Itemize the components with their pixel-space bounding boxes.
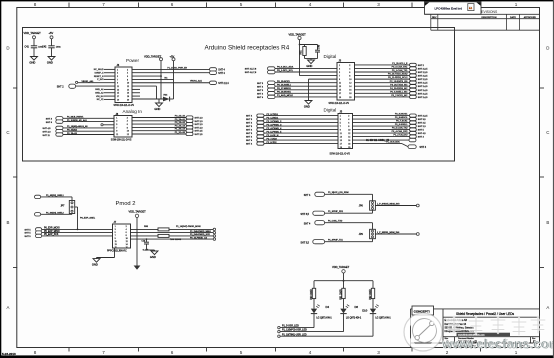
svg-text:D6: D6 (355, 305, 359, 309)
svg-text:13: 13 (115, 244, 117, 246)
off-page connector SHT 2,3,5 (J5 right row1) (410, 114, 417, 117)
svg-text:P1_12(MPO)-USR_LED: P1_12(MPO)-USR_LED (282, 330, 307, 332)
svg-text:VDD_TARGET: VDD_TARGET (289, 32, 307, 36)
wire I2C1_SCL (275, 67, 337, 69)
svg-text:P4_28-TXD3_MC: P4_28-TXD3_MC (390, 84, 408, 86)
wire P4_29-RXD3_MC (355, 89, 410, 91)
svg-text:7: 7 (340, 126, 341, 128)
svg-text:SHT 4: SHT 4 (257, 86, 264, 88)
svg-text:J_P_SHD45_MDM_3V3: J_P_SHD45_MDM_3V3 (377, 203, 400, 205)
svg-text:17: 17 (117, 96, 119, 98)
svg-text:P1_31+A5: P1_31+A5 (175, 131, 186, 134)
svg-text:P1_SUBD5_AR_AA1: P1_SUBD5_AR_AA1 (67, 119, 88, 122)
svg-text:P0_7-SCK1: P0_7-SCK1 (396, 121, 408, 123)
svg-text:8: 8 (348, 126, 349, 128)
svg-text:R81: R81 (300, 50, 302, 55)
svg-text:VIN_SH: VIN_SH (96, 96, 104, 98)
off-page connector SHT 3,5 (J5 right row2) (410, 118, 417, 121)
svg-text:P0_17-MISO1: P0_17-MISO1 (277, 88, 292, 90)
wire P0_16-SSEL1 (275, 85, 337, 87)
scan edge top (0, 0, 554, 1)
wire P0_4-CAN_RX2 (353, 132, 410, 134)
off-page connector SHT 4 (J5 right row9) (408, 145, 416, 149)
off-page connector SHT 2,5 (analog right 6) (186, 132, 193, 135)
svg-text:16: 16 (127, 93, 129, 95)
svg-text:P2_7-RD2: P2_7-RD2 (267, 138, 278, 140)
svg-text:D4: D4 (326, 305, 330, 309)
svg-text:9: 9 (115, 238, 116, 240)
wire P0_7-SCK1 (353, 122, 410, 124)
off-page connector SHT 2,3 (J5 right row4) (410, 125, 417, 128)
wire P0_6-SSEL1_MC (355, 92, 410, 94)
svg-text:SHT 4: SHT 4 (46, 122, 53, 124)
svg-text:SHT 4: SHT 4 (218, 70, 225, 72)
wire pmod row2 (131, 232, 214, 234)
wire from SHT 3,5 (325, 212, 373, 214)
svg-text:5: 5 (116, 124, 117, 126)
svg-text:P2_5-PWM1_5: P2_5-PWM1_5 (267, 131, 283, 133)
svg-text:4: 4 (126, 229, 127, 231)
wire P1_31+A5 (132, 133, 186, 135)
svg-text:4: 4 (348, 119, 349, 121)
svg-text:11: 11 (339, 83, 341, 85)
svg-text:P1_16-M_MDC: P1_16-M_MDC (386, 142, 400, 144)
svg-text:SHT 3,5: SHT 3,5 (301, 214, 310, 216)
capacitor C10 (146, 239, 148, 242)
ground RC filter (305, 58, 318, 60)
wire P0_25(A2) (63, 130, 114, 132)
open terminal pmod row2 (213, 231, 215, 233)
svg-text:9: 9 (340, 130, 341, 132)
wire P1_18(TIN1)-USR_LED (372, 314, 374, 337)
connector J3 (337, 63, 355, 101)
wire J6 left pin 3 (104, 72, 115, 74)
wire P0_26+A3 (132, 126, 186, 128)
svg-text:SHT 2,3,5: SHT 2,3,5 (418, 72, 428, 74)
svg-text:SHT 2,3,5: SHT 2,3,5 (418, 116, 428, 118)
wire P0_6-SSEL1 (353, 125, 410, 127)
svg-text:R91 330R: R91 330R (340, 289, 342, 300)
wire row3 to VDD_TARGET (132, 75, 161, 77)
wire P1_30(D4)_SSEL2 (41, 213, 72, 215)
svg-text:C: C (6, 130, 9, 135)
wire P0_EXP_MISO (42, 232, 113, 234)
svg-text:D: D (6, 46, 9, 51)
svg-text:Digital: Digital (324, 54, 337, 59)
svg-text:P0_18-MOSI1: P0_18-MOSI1 (277, 91, 292, 93)
svg-text:SHT 2,3,4: SHT 2,3,4 (218, 83, 229, 85)
open terminal pmod row3 (213, 235, 215, 237)
revision history table (425, 14, 540, 30)
svg-text:SHT 5: SHT 5 (257, 90, 264, 92)
wire row2 (132, 72, 210, 74)
svg-text:SSW-110-22L-D-VS: SSW-110-22L-D-VS (329, 103, 350, 105)
wire P2_2-PWM1_2 (264, 122, 338, 124)
jumper JP7 (71, 197, 73, 201)
svg-text:2: 2 (349, 65, 350, 67)
svg-text:P0_EXP_SCK: P0_EXP_SCK (44, 234, 59, 236)
svg-text:SHT 4: SHT 4 (46, 119, 53, 121)
svg-text:P1_D48-PMOD_MISO: P1_D48-PMOD_MISO (190, 231, 211, 233)
svg-text:P0_24+A1: P0_24+A1 (175, 118, 186, 121)
svg-text:P1_3(HCL)_I2S_RXM: P1_3(HCL)_I2S_RXM (328, 192, 349, 194)
svg-text:1: 1 (116, 117, 117, 119)
svg-text:VDD_TARGET: VDD_TARGET (332, 265, 350, 269)
svg-text:5: 5 (339, 72, 340, 74)
svg-text:7: 7 (116, 127, 117, 129)
svg-text:P0_EXP_MOSI: P0_EXP_MOSI (44, 228, 60, 230)
wire P0_26+A3 (63, 134, 114, 136)
wire J6 left pin 5 (104, 75, 115, 77)
wire P1_3(HCL)_I2S_RXM (325, 193, 373, 195)
off-page connector SHT 2,4,5 (J3 right row9) (410, 92, 417, 95)
svg-text:APPROVED: APPROVED (524, 16, 537, 19)
wire P1_16-M_MDC (353, 143, 403, 145)
svg-text:6: 6 (127, 124, 128, 126)
off-page connector SHT 2,3 (analog right 3) (186, 123, 193, 126)
wire P1_C4SL_TXD (325, 222, 373, 224)
wire P2_8-TD2 (264, 143, 338, 145)
svg-text:P1_18(TIN1)-USR_LED: P1_18(TIN1)-USR_LED (282, 334, 307, 336)
ground J7 (114, 248, 116, 258)
svg-text:REV: REV (432, 17, 437, 19)
svg-text:4: 4 (127, 73, 128, 75)
off-page connector SHT 2,3,5 (J3 right row5) (410, 78, 417, 81)
open terminal pmod row4 (213, 238, 215, 240)
off-page connector SHT 2,4,5 (J3 right row7) (410, 85, 417, 88)
svg-text:10: 10 (349, 79, 351, 81)
svg-text:P0_15-SCK1: P0_15-SCK1 (277, 81, 291, 83)
ground below C42 (48, 57, 55, 61)
open terminal LED net 1 (278, 326, 280, 328)
sheet title tab (425, 2, 482, 14)
svg-text:GND: GND (304, 105, 310, 109)
wire P0_11-RXD2_SCL2 (355, 78, 410, 80)
svg-text:D: D (546, 46, 549, 51)
open terminal LED net 3 (278, 335, 280, 337)
connector J8 (114, 116, 132, 138)
off-page connector SHT 4 (row2) (210, 71, 217, 74)
wire pmod row4 (131, 238, 214, 240)
svg-text:P2_4-PWM1_4: P2_4-PWM1_4 (267, 128, 283, 130)
svg-text:3: 3 (340, 119, 341, 121)
svg-text:Analog In: Analog In (123, 109, 143, 114)
svg-text:7: 7 (115, 235, 116, 237)
wire J6 left pin 15 (104, 92, 115, 94)
svg-text:SHT 2,5: SHT 2,5 (418, 123, 427, 125)
wire P4_28-TXD3_MC (355, 85, 410, 87)
svg-text:18: 18 (348, 144, 350, 146)
svg-text:7: 7 (102, 2, 105, 7)
svg-text:8: 8 (127, 79, 128, 81)
svg-text:SHT 2,4,5: SHT 2,4,5 (418, 90, 428, 92)
LED D6 (340, 309, 346, 314)
svg-text:VDD_TARGET: VDD_TARGET (129, 209, 147, 213)
svg-text:SHT 4,5,7,8: SHT 4,5,7,8 (245, 69, 257, 71)
svg-text:1: 1 (340, 116, 341, 118)
svg-text:A: A (7, 305, 10, 310)
svg-text:15: 15 (339, 90, 341, 92)
svg-text:NC_SHLD: NC_SHLD (94, 69, 104, 71)
wire P0_8-MISO1 (353, 118, 410, 120)
svg-text:17: 17 (340, 144, 342, 146)
svg-text:Power: Power (126, 58, 139, 63)
svg-text:2: 2 (127, 117, 128, 119)
wire stubs rows7-9 (132, 88, 140, 90)
svg-text:REVISIONS: REVISIONS (479, 10, 498, 14)
svg-text:LG Q971-KN-1: LG Q971-KN-1 (375, 317, 391, 319)
wire P1_31-SCL1_E (355, 64, 410, 66)
svg-text:11: 11 (116, 134, 118, 136)
svg-text:3: 3 (339, 68, 340, 70)
svg-text:12: 12 (348, 133, 350, 135)
svg-text:SHT 5: SHT 5 (246, 119, 253, 121)
off-page connector (J5 right row8) (409, 138, 416, 141)
svg-text:C42: C42 (42, 46, 47, 49)
svg-text:GND: GND (154, 107, 160, 111)
svg-text:P1_SPDIF_TX1: P1_SPDIF_TX1 (328, 240, 344, 242)
svg-text:P2_3-PWM1_3: P2_3-PWM1_3 (267, 124, 283, 126)
svg-text:GND_A2: GND_A2 (95, 92, 104, 95)
svg-text:P0_EXP_SSEL: P0_EXP_SSEL (80, 218, 96, 220)
wire LED power bus (314, 280, 373, 282)
wire SHT2 to J6 pin 11 (76, 85, 115, 87)
svg-text:SHT 4: SHT 4 (246, 140, 253, 142)
svg-text:7: 7 (102, 350, 105, 355)
off-page connector SHT 4,5 (J5 right row6) (410, 132, 417, 135)
svg-text:8: 8 (127, 127, 128, 129)
svg-text:SHT 4: SHT 4 (418, 137, 425, 139)
wire P0_7-SCK1_MC (355, 96, 410, 98)
wire P2_13-EINT3_I2S (355, 82, 410, 84)
svg-text:6: 6 (127, 76, 128, 78)
svg-text:15: 15 (340, 140, 342, 142)
svg-text:R90 330R: R90 330R (311, 289, 313, 300)
svg-text:19: 19 (340, 147, 342, 149)
off-page connector SHT 2,5 (analog right 5) (186, 129, 193, 132)
CONCEPT stamp (412, 306, 434, 315)
wire row6 (132, 85, 157, 87)
svg-text:P0_6-SSEL1: P0_6-SSEL1 (395, 124, 408, 126)
svg-text:NC_X1: NC_X1 (97, 99, 105, 101)
power arrow down (pmod) (134, 266, 141, 270)
svg-text:SHT 5: SHT 5 (246, 133, 253, 135)
svg-text:6: 6 (348, 123, 349, 125)
svg-text:7: 7 (117, 79, 118, 81)
svg-text:SHT 5: SHT 5 (418, 130, 425, 132)
svg-text:P0_1-CAN_TX1: P0_1-CAN_TX1 (392, 69, 408, 72)
watermark glyphs (447, 316, 545, 335)
svg-text:R92 330R: R92 330R (370, 289, 372, 300)
svg-text:SHT 4: SHT 4 (246, 116, 253, 118)
off-page connector SHT 5 (J5 right row5) (410, 128, 417, 131)
wire P2_5-PWM1_5 (264, 132, 338, 134)
wire P0_18-MOSI1 (275, 92, 337, 94)
connector J7 (113, 224, 131, 248)
svg-text:P1_C4SL_TXD: P1_C4SL_TXD (328, 221, 343, 223)
off-page connector SHT 2,4,5 (J3 right row10) (410, 95, 417, 98)
svg-text:5: 5 (117, 76, 118, 78)
svg-text:Pmod 2: Pmod 2 (116, 201, 136, 207)
svg-text:SHT 4: SHT 4 (257, 93, 264, 95)
off-page connector SHT 4 (row1) (210, 68, 217, 71)
svg-text:IOREF_X: IOREF_X (95, 73, 105, 75)
wire VBUS1_AA1 row5 (132, 82, 210, 84)
svg-text:16: 16 (349, 90, 351, 92)
resistor R81 (304, 45, 306, 47)
svg-text:4: 4 (127, 121, 128, 123)
Embedded Artists logo (413, 319, 437, 343)
svg-text:3: 3 (377, 350, 380, 355)
svg-text:P0_22-PMOD_CS: P0_22-PMOD_CS (190, 237, 208, 239)
svg-text:SSW-110-22L-D-VS: SSW-110-22L-D-VS (330, 153, 351, 155)
svg-text:12: 12 (349, 83, 351, 85)
wire VDD row4 (300, 75, 338, 77)
svg-text:SHT 4: SHT 4 (218, 73, 225, 75)
LED D10 (370, 309, 376, 314)
svg-text:17: 17 (339, 93, 341, 95)
svg-text:J_P_SER01_MDM_3V4: J_P_SER01_MDM_3V4 (377, 232, 400, 234)
svg-text:14: 14 (127, 89, 129, 91)
svg-text:SHT 2,3,5: SHT 2,3,5 (418, 68, 428, 70)
svg-text:RESET_N: RESET_N (94, 76, 104, 78)
wire J6 left pin 19 (104, 98, 115, 100)
svg-text:5: 5 (240, 350, 243, 355)
svg-text:P0_1-I2C1_SCL: P0_1-I2C1_SCL (277, 70, 294, 72)
svg-text:SSW-108-22L-D-VS: SSW-108-22L-D-VS (111, 140, 132, 142)
svg-text:SHT 2,3: SHT 2,3 (195, 124, 204, 126)
svg-text:www.elecfans.com: www.elecfans.com (441, 336, 554, 351)
svg-text:7: 7 (339, 75, 340, 77)
svg-text:1: 1 (515, 2, 518, 7)
svg-text:10: 10 (127, 83, 129, 85)
wire JP7 common to J7 (75, 206, 78, 208)
svg-text:10: 10 (348, 130, 350, 132)
svg-text:P2_2-PWM1_2: P2_2-PWM1_2 (267, 121, 283, 123)
off-page connector P1_30 (pmod mid) (35, 213, 41, 216)
svg-text:SHT 4: SHT 4 (304, 195, 311, 197)
ground drop at power rail (158, 99, 160, 103)
svg-text:3: 3 (377, 2, 380, 7)
svg-text:6: 6 (171, 2, 174, 7)
wire J_P_SER01_MDM_3V4 (375, 233, 416, 235)
svg-text:C41: C41 (25, 46, 30, 49)
svg-text:SHT 2: SHT 2 (57, 85, 64, 88)
wire pmod row3 + resistor R96 (131, 235, 159, 237)
svg-text:9: 9 (116, 131, 117, 133)
svg-text:4: 4 (349, 68, 350, 70)
svg-text:P0_25(A2): P0_25(A2) (67, 129, 77, 132)
svg-text:SHT 5: SHT 5 (246, 126, 253, 128)
svg-text:Shield Receptacles / Pmod2 / U: Shield Receptacles / Pmod2 / User LEDs (456, 312, 515, 316)
svg-text:13: 13 (339, 86, 341, 88)
off-page connector SHT 2 (J3 right row1) (410, 63, 417, 66)
ground below J3 left (305, 101, 312, 105)
svg-text:PPPC082LJBN-RC: PPPC082LJBN-RC (107, 251, 127, 253)
wire P0_EXP_SCK (42, 235, 113, 237)
wire P0_0-CAN_RX1 (355, 67, 410, 69)
wire row4 NC (132, 78, 174, 80)
svg-text:SHT 5: SHT 5 (25, 233, 32, 235)
wire 01-SD421-USB1_V5 (353, 139, 410, 141)
wire P1_12(MPO)-USR_LED (343, 314, 345, 332)
svg-text:3: 3 (117, 73, 118, 75)
svg-text:SHT 4: SHT 4 (304, 224, 311, 226)
wire P0_EXP_MOSI (42, 228, 113, 230)
svg-text:SSW-110-22L-D-VS: SSW-110-22L-D-VS (114, 105, 135, 107)
svg-text:P1_17-M_DIO: P1_17-M_DIO (394, 135, 408, 137)
svg-text:P4_29-RXD3_MC: P4_29-RXD3_MC (390, 88, 408, 90)
off-page connector SHT 2,3,4 (210, 81, 217, 84)
svg-text:VBUS1_AA1: VBUS1_AA1 (190, 79, 203, 82)
off-page connector SHT 2,3,5 (J3 right row3) (410, 70, 417, 73)
off-page connector P1_45 (pmod top) (35, 195, 41, 198)
svg-text:4: 4 (309, 2, 312, 7)
svg-text:5: 5 (115, 232, 116, 234)
svg-text:VDD_TARGET: VDD_TARGET (144, 55, 162, 59)
svg-text:LPC4088ex Eval brd: LPC4088ex Eval brd (435, 6, 463, 10)
wire from SHT 3,5 (325, 241, 373, 243)
svg-text:C: C (546, 130, 549, 135)
svg-text:P2_13-EINT3_I2S: P2_13-EINT3_I2S (390, 81, 408, 83)
wire P0_24+A1 (132, 120, 186, 122)
open terminal LED net 2 (278, 330, 280, 332)
svg-text:P0_8-MISO1: P0_8-MISO1 (395, 117, 408, 119)
watermark circle overlay (407, 316, 440, 349)
wire P1_30+A4 (132, 130, 186, 132)
svg-text:15: 15 (117, 93, 119, 95)
svg-text:SHT 4,5: SHT 4,5 (43, 128, 52, 130)
wire P2_3-PWM1_3 (264, 125, 338, 127)
svg-text:P0_0-I2C1_SDA: P0_0-I2C1_SDA (277, 66, 294, 69)
svg-text:13: 13 (117, 89, 119, 91)
svg-text:6: 6 (171, 350, 174, 355)
node on analog row3 (101, 124, 103, 126)
svg-text:2: 2 (127, 69, 128, 71)
svg-text:SHT 2,3,5: SHT 2,3,5 (418, 76, 428, 78)
svg-text:SHT 2,5: SHT 2,5 (195, 131, 204, 133)
open terminal (jumper out) (416, 233, 419, 236)
ground C10 (147, 249, 155, 251)
svg-text:2: 2 (126, 226, 127, 228)
svg-text:P1_19-SD_PWR_EN: P1_19-SD_PWR_EN (167, 67, 187, 69)
svg-text:5: 5 (340, 123, 341, 125)
svg-text:SHT 4: SHT 4 (257, 97, 264, 99)
svg-text:14: 14 (126, 244, 128, 246)
wire P0_17-MISO1 (275, 89, 337, 91)
ground below C41 (31, 57, 38, 61)
svg-text:P0_7-SCK1_MC: P0_7-SCK1_MC (391, 95, 408, 97)
wire LED branch 1 (313, 281, 315, 289)
svg-text:SHT 11: SHT 11 (43, 135, 51, 137)
svg-text:3: 3 (116, 121, 117, 123)
svg-text:6: 6 (349, 72, 350, 74)
scan edge right (553, 0, 554, 358)
capacitor C41 (33, 36, 36, 39)
scan edge left (0, 0, 1, 358)
svg-text:P0_26+A3: P0_26+A3 (175, 124, 186, 127)
svg-text:P2_0-TXD1: P2_0-TXD1 (267, 114, 279, 116)
svg-text:11: 11 (340, 133, 342, 135)
svg-text:P1_5-USR_LED: P1_5-USR_LED (282, 326, 299, 328)
off-page connector SHT 2,3 (analog right 4) (186, 126, 193, 129)
wire P1_AUD_MCLK (275, 96, 337, 98)
LED D4 (311, 309, 317, 314)
svg-text:5: 5 (240, 2, 243, 7)
wire P0_25+A2 (132, 123, 186, 125)
svg-text:100n: 100n (56, 47, 62, 49)
svg-text:1: 1 (115, 226, 116, 228)
